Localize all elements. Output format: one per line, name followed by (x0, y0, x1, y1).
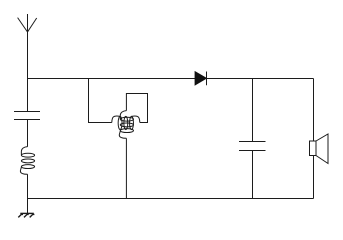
wire top junction down to L2 (89, 79, 112, 123)
capacitor C1 (14, 112, 40, 120)
wire L1 to ground (27, 174, 29, 213)
inductor L3 (vertical coil) (119, 111, 133, 139)
wire C2 to bottom (252, 151, 254, 199)
wire bottom (28, 198, 314, 200)
inductor L1 (20, 147, 34, 175)
wire L3 to bottom (125, 138, 127, 198)
speaker LS1 (310, 134, 329, 164)
wire top (28, 78, 314, 80)
antenna (18, 14, 37, 79)
inductor L2 (horizontal coil) (112, 116, 140, 130)
wire top to C2 (252, 79, 254, 142)
wire antenna to C1 (27, 79, 29, 112)
diode D1 (195, 72, 207, 86)
wire L2 up and over to L3 (126, 94, 147, 123)
ground (18, 213, 34, 217)
capacitor C2 (239, 142, 266, 151)
wire right (313, 79, 315, 199)
wire C1 to L1 (27, 120, 29, 147)
